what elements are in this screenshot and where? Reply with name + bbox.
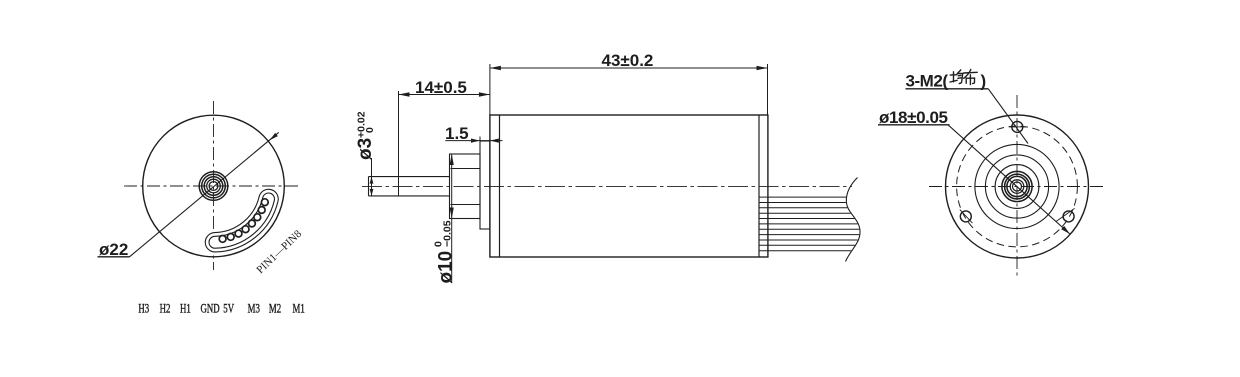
shaft end cap: [368, 177, 370, 196]
pin 6 hole: [254, 214, 261, 221]
svg-text:0: 0: [364, 127, 376, 133]
dimension 43 right extension line: [767, 64, 769, 115]
dimension Ø3 upper arrowhead: [370, 177, 374, 184]
screw hole M2 top tick: [1009, 126, 1026, 128]
Ø18 text underline: [878, 124, 950, 126]
body left inner ring line: [499, 115, 501, 257]
dimension 43 left extension line: [489, 64, 491, 115]
left view hub circle 4: [207, 179, 221, 193]
screw hole M2 lower-left tick: [960, 210, 973, 224]
screw hole M2 lower-left: [960, 211, 971, 222]
pin 1 hole: [219, 236, 226, 243]
dimension 14 right arrowhead: [479, 92, 490, 96]
dimension Ø3 line: [371, 158, 373, 196]
screw hole M2 lower-right tick: [1056, 208, 1074, 221]
dimension Ø10 line: [451, 154, 453, 283]
boss rectangle (Ø10): [450, 154, 481, 219]
right view circle r31: [985, 155, 1048, 218]
svg-text:ø3: ø3: [355, 138, 376, 160]
svg-text:43±0.2: 43±0.2: [602, 51, 654, 70]
shaft top edge: [369, 176, 450, 178]
dimension 14 left extension line: [398, 91, 400, 196]
pin 3 hole: [235, 230, 242, 237]
right view horizontal centerline: [929, 186, 1104, 188]
svg-text:GND: GND: [201, 302, 220, 316]
screw hole M2 lower-right: [1063, 211, 1074, 222]
boss inner line upper: [451, 168, 481, 170]
bolt circle (dashed, Ø18): [957, 126, 1078, 247]
svg-text:H1: H1: [180, 302, 191, 316]
svg-text:+0.02: +0.02: [356, 111, 368, 138]
left view outer circle (motor body Ø22): [143, 115, 285, 257]
right view hub circle 2: [1005, 174, 1030, 199]
dimension 43±0.2 line: [490, 67, 768, 69]
dimension 14±0.5 line: [399, 94, 490, 96]
dimension Ø3 lower arrowhead: [370, 189, 374, 196]
left view horizontal centerline: [124, 185, 298, 187]
left view hub circle 3: [204, 177, 223, 196]
shaft bottom edge: [369, 195, 450, 197]
right view outer circle: [946, 115, 1089, 258]
Ø22 leader line: [130, 132, 279, 256]
svg-text:3-M2(: 3-M2(: [906, 71, 949, 90]
right view hub circle 3: [1007, 176, 1027, 196]
dimension Ø10 upper arrowhead: [450, 154, 454, 165]
screw hole M2 top: [1012, 121, 1023, 132]
dimension 1.5 extension line: [479, 137, 481, 142]
connector arc band silhouette: [215, 199, 269, 242]
left view hub circle 1: [199, 172, 228, 201]
hanzi bu (布): [964, 70, 978, 85]
pilot ring rectangle: [480, 141, 490, 229]
svg-text:ø10: ø10: [436, 251, 457, 284]
pin 4 hole: [242, 226, 249, 233]
Ø18 leader arrowhead: [1061, 226, 1070, 234]
Ø22 text underline: [98, 256, 130, 258]
dimension Ø10 lower arrowhead: [450, 208, 454, 219]
pin 2 hole: [227, 234, 234, 241]
right view hub circle 1: [1002, 171, 1032, 201]
left view hub circle 5: [209, 182, 218, 191]
left view vertical centerline: [213, 101, 215, 270]
right view hub circle 4: [1010, 180, 1024, 194]
svg-text:H3: H3: [138, 302, 149, 316]
motor body rectangle: [490, 115, 768, 257]
dimension 43 left arrowhead: [490, 66, 501, 70]
boss inner line lower: [451, 204, 481, 206]
svg-text:ø22: ø22: [99, 240, 128, 259]
svg-text:M2: M2: [269, 302, 281, 316]
dimension 1.5 right arrowhead: [490, 139, 499, 143]
Ø22 leader arrowhead: [270, 133, 278, 140]
3-M2 leader line: [988, 89, 1028, 144]
right view circle r42: [975, 144, 1059, 228]
svg-text:): ): [981, 71, 987, 90]
wire bundle break curve: [846, 178, 861, 262]
pin 7 hole: [258, 207, 265, 214]
dimension 1.5 left arrowhead: [471, 139, 480, 143]
body right inner ring line: [758, 115, 760, 257]
hanzi jun (均): [950, 70, 963, 84]
svg-text:ø18±0.05: ø18±0.05: [879, 108, 948, 127]
svg-text:−0.05: −0.05: [442, 220, 454, 247]
dimension 1.5 line: [445, 140, 502, 142]
right view hub circle 5: [1013, 182, 1022, 191]
Ø18 leader line: [948, 125, 1070, 234]
dimension 43 right arrowhead: [757, 66, 768, 70]
right view vertical centerline: [1016, 95, 1018, 278]
svg-text:H2: H2: [160, 302, 171, 316]
middle view horizontal centerline: [362, 185, 852, 187]
right view circle r22: [995, 165, 1039, 209]
dimension 14 left arrowhead: [399, 92, 410, 96]
left view hub circle 2: [202, 174, 226, 198]
svg-text:M3: M3: [248, 302, 261, 316]
svg-text:14±0.5: 14±0.5: [415, 78, 467, 97]
wire bundle lines: [760, 197, 860, 251]
3-M2 label underline: [906, 88, 989, 90]
svg-text:5V: 5V: [223, 302, 234, 316]
svg-text:PIN1—PIN8: PIN1—PIN8: [254, 228, 304, 277]
pin 5 hole: [249, 220, 256, 227]
svg-text:M1: M1: [293, 302, 305, 316]
svg-text:1.5: 1.5: [445, 124, 469, 143]
pin 8 hole: [261, 199, 268, 206]
